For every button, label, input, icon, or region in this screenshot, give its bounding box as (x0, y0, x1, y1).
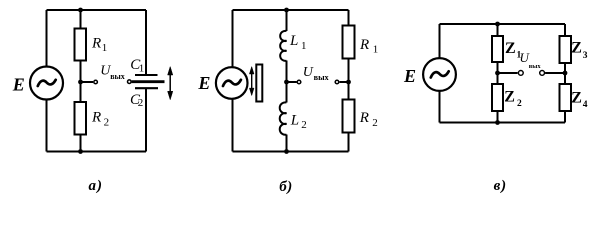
svg-text:б): б) (279, 179, 292, 195)
svg-text:1: 1 (102, 42, 108, 54)
svg-text:1: 1 (301, 40, 307, 52)
svg-text:R: R (91, 35, 101, 51)
svg-text:2: 2 (372, 117, 378, 129)
svg-text:а): а) (88, 178, 103, 194)
svg-text:R: R (91, 110, 101, 126)
svg-text:4: 4 (583, 100, 588, 110)
svg-text:R: R (359, 37, 369, 53)
svg-text:вых: вых (529, 63, 542, 70)
svg-text:2: 2 (104, 116, 110, 128)
svg-text:L: L (289, 33, 298, 49)
svg-text:L: L (290, 113, 299, 129)
svg-text:1: 1 (139, 63, 145, 75)
svg-text:2: 2 (517, 99, 522, 109)
svg-text:E: E (197, 73, 210, 93)
svg-text:R: R (359, 110, 369, 126)
svg-text:U: U (303, 65, 314, 80)
svg-text:вых: вых (314, 73, 330, 82)
svg-text:Z: Z (571, 40, 582, 57)
svg-text:2: 2 (138, 97, 144, 109)
svg-text:Z: Z (505, 40, 516, 57)
svg-text:в): в) (494, 178, 507, 194)
svg-text:Z: Z (504, 88, 515, 105)
svg-text:1: 1 (373, 44, 379, 56)
svg-text:E: E (12, 74, 25, 94)
svg-text:2: 2 (301, 119, 307, 131)
svg-text:Z: Z (571, 89, 582, 106)
svg-text:вых: вых (110, 72, 125, 81)
svg-text:3: 3 (583, 51, 588, 61)
svg-text:E: E (403, 66, 416, 86)
